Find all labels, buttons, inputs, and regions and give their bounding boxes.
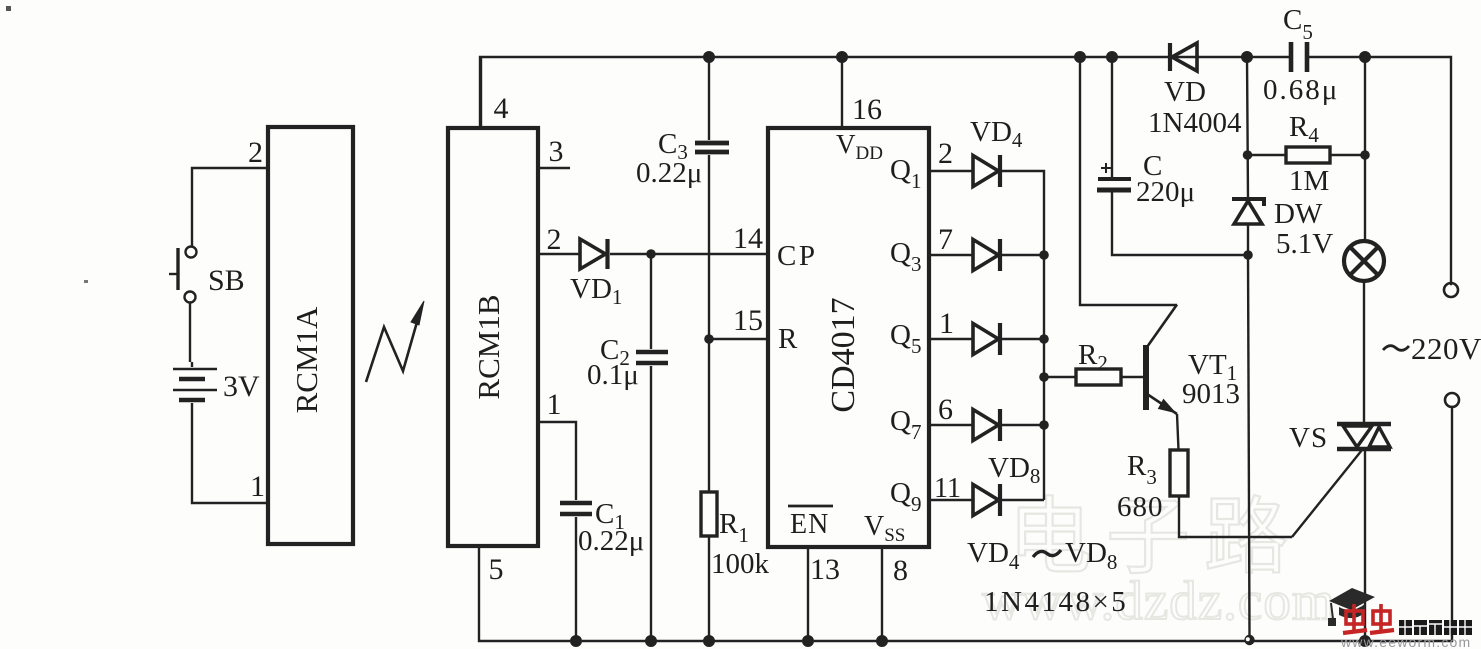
svg-text:2: 2 — [547, 223, 562, 256]
svg-text:3V: 3V — [223, 370, 260, 403]
node top rail DW junction — [1242, 52, 1252, 62]
wire CD4017 pin16 — [841, 57, 843, 128]
svg-text:5.1V: 5.1V — [1276, 228, 1333, 260]
zener DW — [1232, 199, 1264, 636]
svg-text:7: 7 — [938, 223, 953, 256]
diode VD8 — [973, 484, 1000, 516]
wire RCM1B pin4 — [480, 57, 482, 128]
node bottom rail lamp junction — [1360, 636, 1370, 646]
svg-text:0.22μ: 0.22μ — [636, 157, 702, 189]
speck left — [84, 280, 88, 283]
wire CD4017 pin13 — [807, 547, 809, 641]
node bottom rail C2 junction — [646, 636, 656, 646]
resistor R1 — [701, 492, 717, 641]
svg-text:0.1μ: 0.1μ — [587, 359, 639, 391]
svg-text:220V: 220V — [1411, 331, 1481, 366]
svg-text:0.68μ: 0.68μ — [1263, 74, 1339, 106]
wire pin15 R — [709, 338, 768, 340]
wire bottom rail — [479, 407, 1452, 641]
RF zigzag arrow — [366, 301, 424, 382]
capacitor C1 — [560, 503, 592, 641]
svg-text:RCM1B: RCM1B — [471, 294, 506, 399]
node DW bottom junction — [1243, 250, 1253, 260]
triac VS — [1337, 424, 1391, 641]
wire RCM1B pin1 to C1 — [538, 422, 576, 500]
svg-text:CP: CP — [777, 240, 817, 272]
battery 3V — [173, 362, 268, 503]
svg-text:1N4004: 1N4004 — [1148, 107, 1242, 139]
node R4 left junction — [1243, 150, 1253, 160]
diode VD7 — [973, 409, 1000, 441]
wire RCM1A pin2 — [192, 168, 268, 246]
logo site name glyph blocks — [1399, 620, 1472, 635]
diode VD5 — [973, 239, 1000, 271]
logo chongchong red glyphs — [1343, 604, 1394, 633]
svg-text:9013: 9013 — [1182, 378, 1240, 410]
diode VD6 — [973, 323, 1000, 355]
node bus R2 — [1039, 372, 1049, 382]
svg-text:CD4017: CD4017 — [825, 297, 862, 412]
node bus Q7 — [1039, 420, 1049, 430]
svg-text:1M: 1M — [1289, 165, 1329, 197]
label ~220V — [1383, 346, 1409, 351]
svg-text:1: 1 — [250, 470, 265, 503]
wire Q7 pin6 — [929, 424, 1044, 426]
svg-text:SB: SB — [208, 264, 245, 297]
svg-text:8: 8 — [893, 554, 908, 587]
node R4 right junction — [1360, 150, 1370, 160]
node bottom rail pin13 junction — [803, 636, 813, 646]
svg-text:0.22μ: 0.22μ — [578, 525, 644, 557]
svg-text:13: 13 — [810, 553, 840, 586]
node bus Q5 — [1039, 334, 1049, 344]
wire Q3 pin7 — [929, 254, 1044, 256]
speck top-left — [6, 6, 11, 11]
node top rail collector junction — [1075, 52, 1085, 62]
terminal upper — [1444, 283, 1458, 297]
IC RCM1B — [448, 128, 538, 546]
terminal lower — [1445, 393, 1459, 407]
resistor R3 — [1170, 450, 1362, 537]
node bottom rail R1 junction — [704, 636, 714, 646]
svg-text:2: 2 — [938, 137, 953, 170]
logo graduation cap — [1328, 588, 1375, 626]
node bus Q3 — [1039, 250, 1049, 260]
svg-text:www.eeworm.com: www.eeworm.com — [1340, 634, 1471, 649]
resistor R2 — [1044, 369, 1143, 385]
svg-text:1: 1 — [939, 307, 954, 340]
wire top rail right segment — [1308, 57, 1451, 284]
wire CD4017 pin8 — [881, 547, 883, 641]
capacitor C electrolytic — [1097, 57, 1248, 255]
switch SB — [169, 247, 197, 363]
svg-text:5: 5 — [489, 553, 504, 586]
svg-text:VS: VS — [1289, 422, 1328, 454]
node top rail C3 junction — [704, 52, 714, 62]
capacitor C3 line — [695, 57, 729, 492]
svg-text:6: 6 — [938, 393, 953, 426]
svg-text:2: 2 — [248, 136, 263, 169]
svg-text:11: 11 — [934, 473, 961, 504]
node bottom rail pin8 junction — [877, 636, 887, 646]
wire top rail left segment — [480, 57, 1291, 128]
svg-text:14: 14 — [733, 222, 763, 255]
svg-text:220μ: 220μ — [1136, 176, 1195, 208]
svg-text:1: 1 — [547, 388, 562, 421]
wire Q9 pin11 — [929, 499, 1044, 501]
capacitor C2 — [636, 254, 668, 641]
resistor R4 — [1247, 57, 1365, 198]
svg-text:15: 15 — [733, 304, 763, 337]
svg-text:3: 3 — [549, 135, 564, 168]
IC CD4017 — [768, 128, 929, 547]
capacitor C5 — [1291, 42, 1307, 72]
svg-text:VD: VD — [1164, 76, 1206, 108]
node bottom rail DW donut junction — [1244, 635, 1254, 645]
node top rail lamp junction — [1360, 52, 1370, 62]
node bottom rail C1 junction — [571, 636, 581, 646]
diode VD1 — [580, 239, 608, 269]
node VD1-C2 junction — [646, 249, 656, 259]
wire RCM1B pin2 to CP — [538, 253, 768, 255]
svg-text:R: R — [778, 323, 798, 355]
node top rail C(220u) junction — [1107, 52, 1117, 62]
svg-text:RCM1A: RCM1A — [289, 306, 324, 413]
svg-text:680: 680 — [1117, 491, 1164, 523]
diode VD 1N4004 — [1170, 43, 1197, 71]
wire Q1 pin2 — [929, 171, 1044, 500]
IC RCM1A — [268, 127, 353, 544]
svg-text:EN: EN — [790, 509, 829, 540]
svg-text:16: 16 — [852, 93, 882, 126]
transistor VT1 — [1080, 57, 1179, 450]
svg-text:4: 4 — [494, 92, 509, 125]
wire RCM1B pin3 stub — [538, 167, 570, 169]
svg-text:DW: DW — [1274, 198, 1323, 230]
lamp — [1344, 57, 1384, 424]
node top rail VDD junction — [837, 52, 847, 62]
svg-text:1N4148×5: 1N4148×5 — [984, 586, 1128, 618]
watermark ghost — [982, 492, 1336, 631]
svg-text:100k: 100k — [711, 548, 770, 580]
diode VD4 — [973, 155, 1000, 187]
node pin15 junction — [704, 334, 714, 344]
wire Q5 pin1 — [929, 338, 1044, 340]
